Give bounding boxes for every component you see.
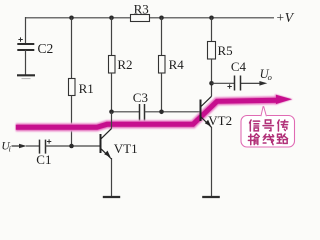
junction dot rail/R1 [69,15,74,20]
transistor VT1 [100,112,112,159]
glyph 线 [263,134,273,145]
wire: VT1 emitter to ground [111,158,113,197]
junction dot VT2 collector / C4 [209,81,214,86]
glyph 输 [248,134,259,145]
junction dot VT1 collector / C3 [109,110,114,115]
glyph 信 [250,120,260,131]
svg-text:R1: R1 [79,81,94,96]
transistor VT2 [200,83,212,127]
wire: rail to R5 [211,18,213,42]
label + (C2 polarity) [18,37,22,41]
output arrow [241,81,268,86]
svg-text:o: o [268,72,272,82]
input arrow [12,144,27,149]
resistor R1 [69,79,76,96]
label Uo [260,67,272,82]
svg-text:+V: +V [276,10,295,25]
wire: R4 to VT2 base node [161,73,163,112]
wire: rail to R1 [71,18,73,79]
label Ui [1,140,10,153]
svg-text:R3: R3 [134,1,149,16]
callout bubble [241,116,295,148]
capacitor C2 [17,44,34,50]
wire: rail to C2 [25,17,27,44]
capacitor C1 [40,140,46,154]
signal path highlight band [16,94,293,127]
glyph 路 [277,134,288,143]
svg-text:C1: C1 [36,152,51,167]
wire: rail to R4 [161,18,163,56]
svg-text:i: i [9,144,11,153]
callout tail [260,106,267,117]
ground (C2) [17,75,35,78]
label + (C1 polarity) [47,139,51,143]
junction dot R1 / VT1 base [69,144,74,149]
junction dot rail/R4 [159,15,164,20]
junction dot R4 / VT2 base [159,110,164,115]
svg-text:R2: R2 [117,57,132,72]
wire: R5 to VT2 collector node [211,59,213,83]
junction dot rail/R5 [209,15,214,20]
wire: R2 to VT1 collector node [111,73,113,112]
svg-text:C2: C2 [38,41,54,56]
label + (C4 polarity) [227,84,231,88]
svg-text:R4: R4 [169,57,185,72]
label 信号传输线路 (drawn glyphs) [248,120,288,145]
wire: R1 to VT1 base node [71,96,73,147]
wire: VT2 emitter to ground [211,127,213,197]
wire: C1 to VT1 base [46,145,101,147]
wire: +V supply rail [26,17,275,19]
wire: rail to R2 [111,18,113,56]
svg-text:VT1: VT1 [114,141,138,156]
capacitor C4 [235,76,241,91]
resistor R5 [208,42,216,60]
wire: C3 to VT2 base [145,111,201,113]
wire: C2 to ground [25,50,27,75]
svg-text:R5: R5 [218,43,233,58]
svg-text:C4: C4 [231,59,247,74]
wire: collector node to C4 [212,82,235,84]
glyph 传 [278,120,288,131]
resistor R2 [109,56,116,74]
resistor R3 [131,15,150,22]
wire: VT1 collector node to C3 [112,111,140,113]
resistor R4 [159,56,166,74]
ground (VT2) [202,196,220,198]
svg-text:C3: C3 [133,90,148,105]
capacitor C3 [140,104,145,121]
glyph 号 [263,120,273,131]
wire: input to C1 [26,145,40,147]
svg-text:VT2: VT2 [208,113,232,128]
junction dot rail/R2 [109,15,114,20]
ground (VT1) [103,196,120,198]
